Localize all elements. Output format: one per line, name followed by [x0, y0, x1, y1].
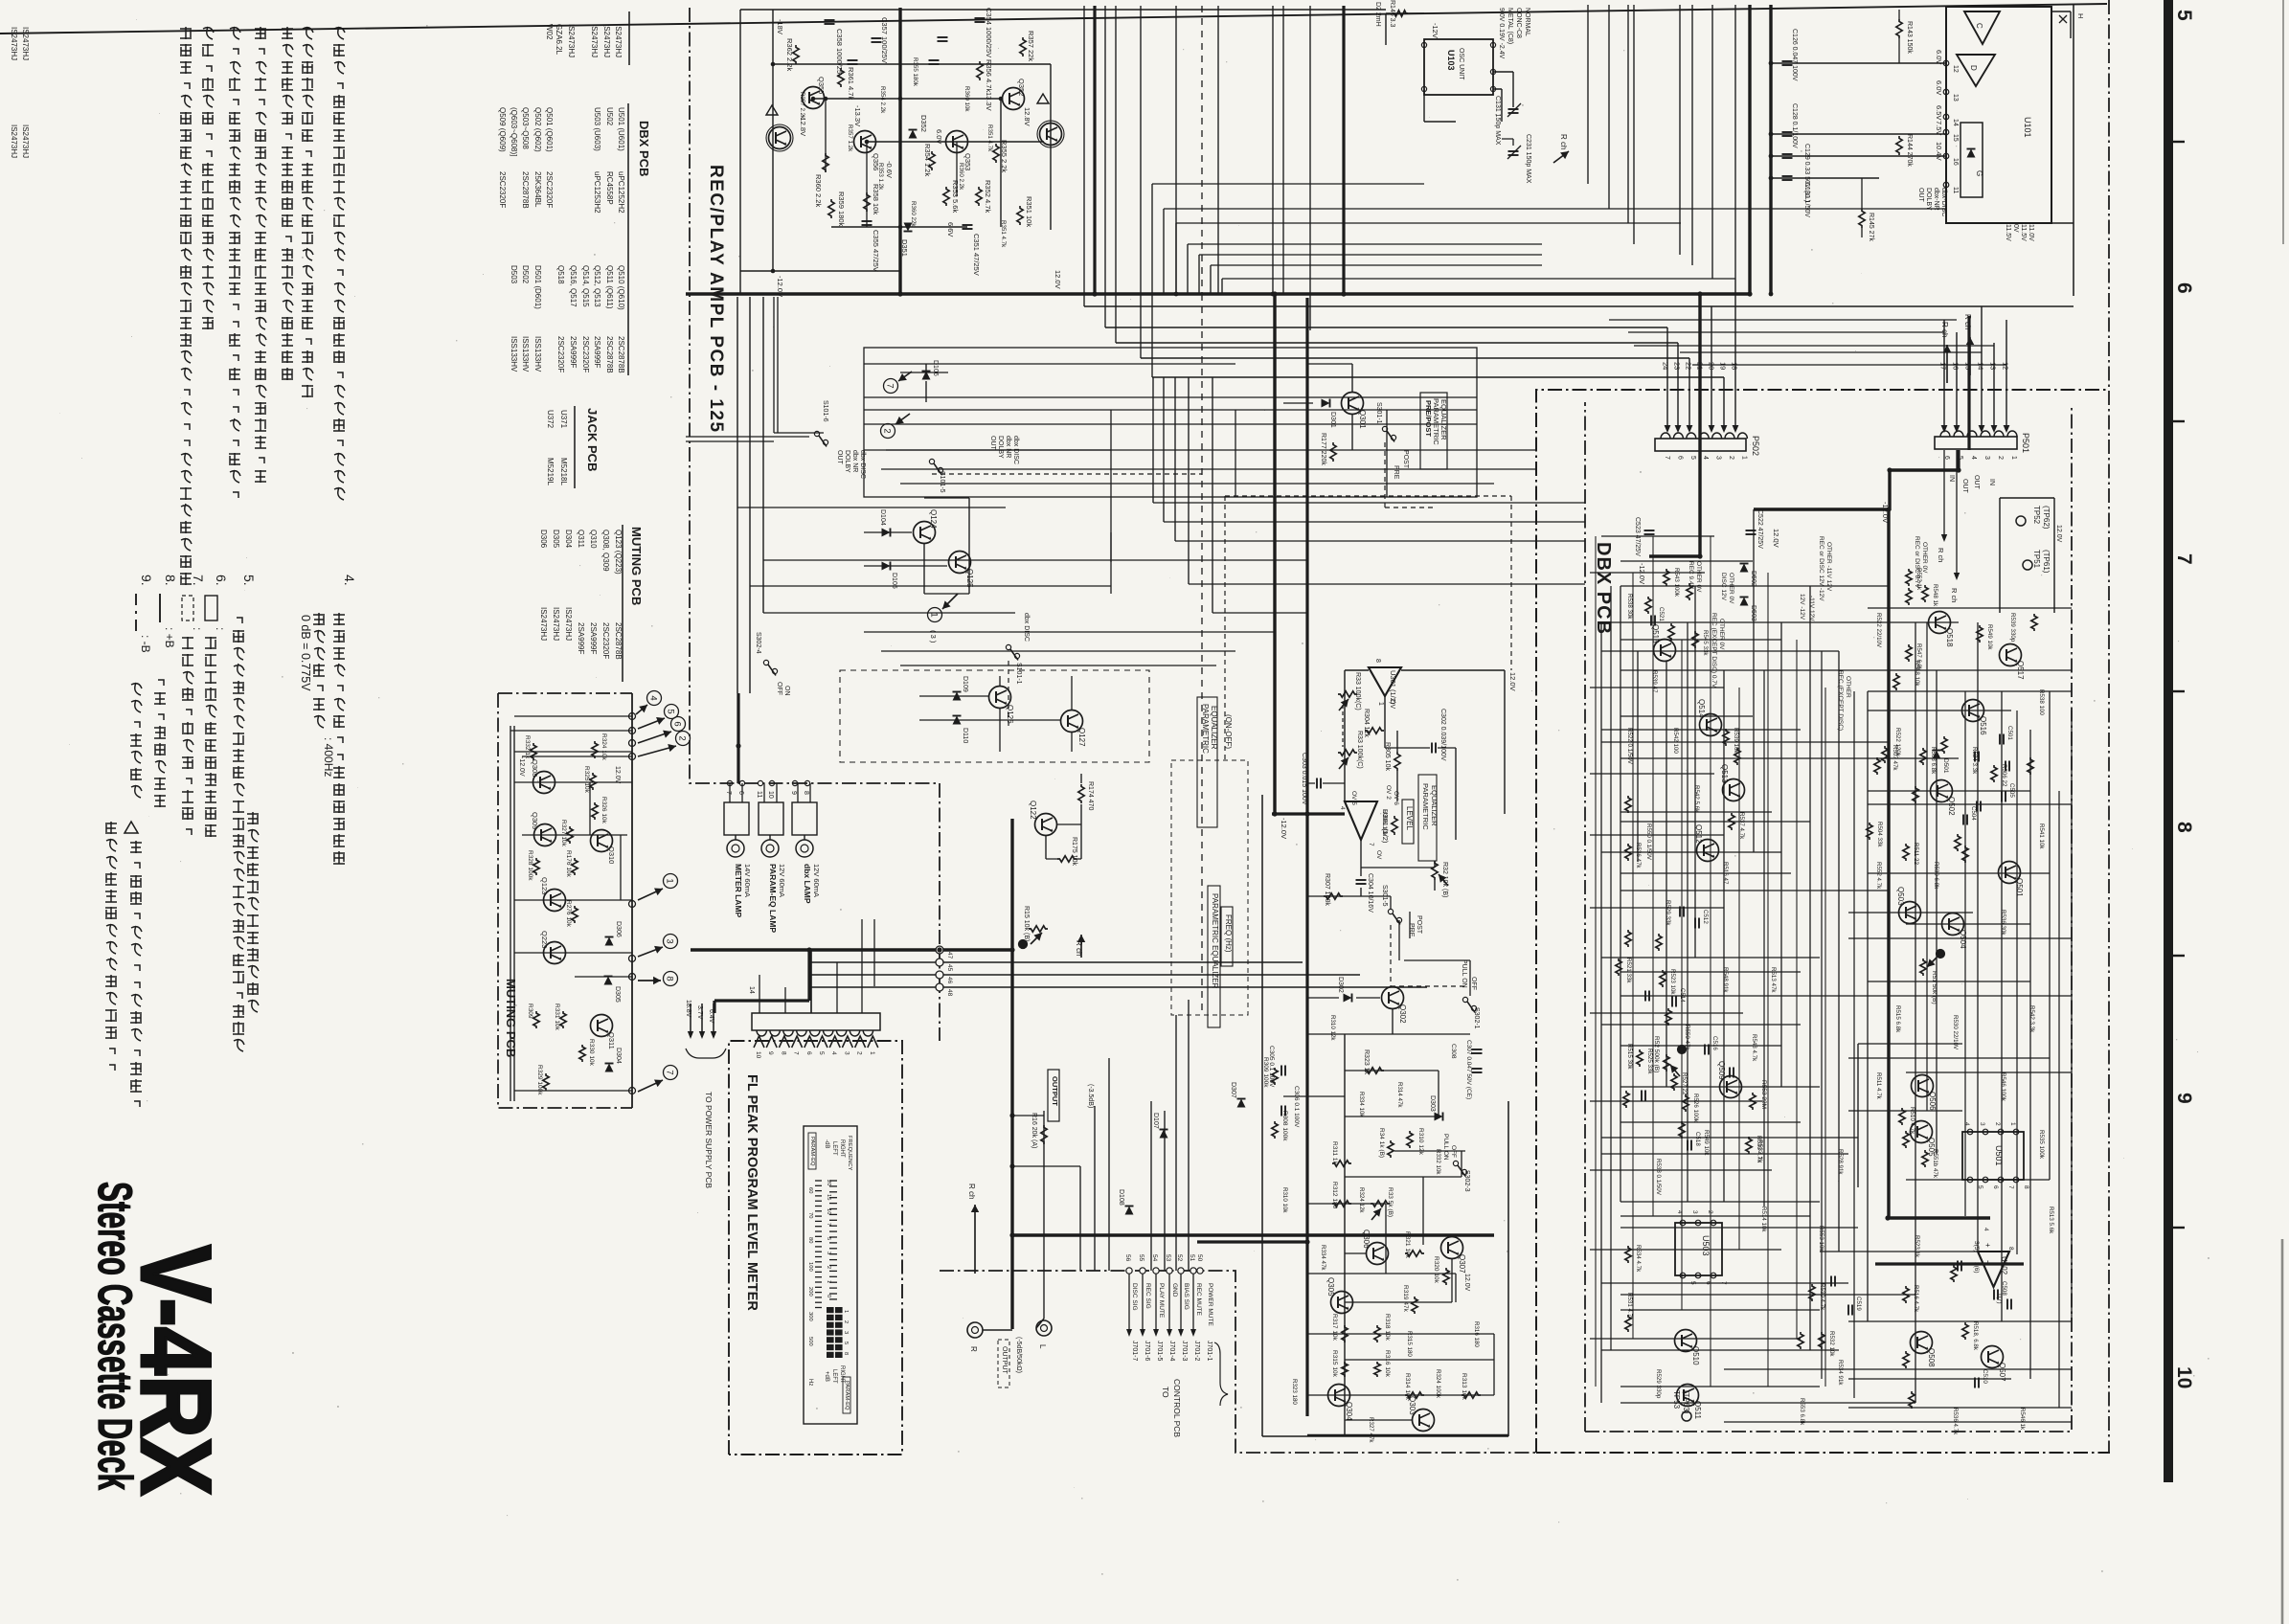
svg-text:Q509: Q509 — [1717, 1061, 1726, 1080]
diode D301 — [1322, 399, 1330, 408]
svg-text:LEFT: LEFT — [831, 1141, 837, 1156]
svg-text:DOLBY: DOLBY — [1925, 188, 1932, 211]
svg-text:R308 100k: R308 100k — [1281, 1111, 1288, 1141]
wire R52 wiper — [1670, 1065, 1680, 1076]
svg-text:C510: C510 — [1982, 1369, 1988, 1384]
wire thick lamp feed — [737, 693, 739, 783]
svg-text:Q503: Q503 — [1896, 887, 1905, 906]
IC U501 box — [1962, 1122, 2029, 1189]
wire staircase verticals into bundle — [1084, 294, 1152, 377]
label meter PARAM-EQ top — [808, 1133, 816, 1169]
svg-text:2SC2320F: 2SC2320F — [556, 336, 565, 372]
svg-text:11: 11 — [1952, 187, 1959, 193]
svg-text:0V: 0V — [2012, 224, 2019, 233]
transistor Q122 — [1035, 814, 1057, 836]
svg-text:Q311: Q311 — [577, 530, 585, 549]
svg-text:U502: U502 — [2000, 1256, 2008, 1275]
svg-text:R539 47: R539 47 — [1651, 670, 1658, 693]
svg-text:24: 24 — [1662, 362, 1670, 370]
wire S301-5 links — [1361, 896, 1410, 960]
resistor R324 — [592, 741, 598, 758]
svg-text:Q311: Q311 — [607, 1032, 616, 1049]
svg-text:R524 3.3k: R524 3.3k — [1971, 747, 1978, 775]
transistor Q354 — [766, 124, 793, 151]
svg-text:R536 30k: R536 30k — [2000, 910, 2006, 936]
svg-text:11.0V: 11.0V — [2028, 224, 2034, 241]
svg-text:R357 1.2k: R357 1.2k — [847, 124, 853, 152]
svg-text:3: 3 — [1983, 456, 1990, 460]
wire Q122 links — [1046, 774, 1081, 859]
svg-text:D502: D502 — [521, 265, 530, 284]
wire R33b wiper — [1339, 757, 1348, 769]
label meter PARAM-EQ bottom — [843, 1377, 850, 1413]
wire C129 rail — [1771, 155, 1946, 157]
svg-text:9.0V 0.19V -2.4V: 9.0V 0.19V -2.4V — [1498, 8, 1505, 59]
label note item 5 — [241, 575, 257, 586]
svg-text:4: 4 — [1970, 456, 1977, 460]
svg-text:D304: D304 — [564, 530, 573, 549]
right page edge smear lower — [2281, 1239, 2284, 1624]
svg-text:Q122: Q122 — [1029, 801, 1037, 820]
resistor R319 — [1412, 1297, 1417, 1314]
resistor R33 — [1338, 691, 1357, 697]
resistor R33c — [1371, 1201, 1390, 1207]
svg-text:R ch: R ch — [1950, 588, 1959, 602]
capacitor C523 — [1644, 530, 1655, 534]
IC U503 box — [1675, 1210, 1727, 1285]
svg-text:D306: D306 — [539, 530, 548, 549]
svg-text:Q518: Q518 — [1945, 628, 1954, 647]
svg-text:18: 18 — [1731, 362, 1739, 370]
capacitor C231 — [1508, 151, 1519, 155]
resistor R357 — [1020, 37, 1026, 56]
svg-text:Hz: Hz — [807, 1379, 813, 1386]
transistor Q304 — [1328, 1385, 1350, 1407]
resistor R521 — [1616, 959, 1621, 976]
wire dbx extra labels — [1626, 594, 2054, 1435]
svg-text:R304 12k: R304 12k — [1363, 709, 1370, 737]
svg-text:D501 (D601): D501 (D601) — [533, 265, 542, 309]
diode D107 — [1160, 1130, 1168, 1139]
wire meter display box — [804, 1126, 857, 1424]
label japanese note line d — [255, 27, 266, 483]
node U103 pins — [1421, 42, 1495, 91]
label dbx capacitor refs — [1658, 607, 2015, 1384]
resistor R516 — [1903, 1286, 1909, 1303]
svg-text:55: 55 — [1138, 1254, 1144, 1262]
wire Q301 feed — [1283, 364, 1352, 450]
svg-text:5: 5 — [1977, 1185, 1983, 1189]
wire arrow m7 — [638, 1079, 663, 1092]
svg-text:D305: D305 — [614, 986, 621, 1003]
svg-text:8: 8 — [665, 976, 675, 981]
svg-text:10: 10 — [826, 1208, 831, 1214]
wire lattice corner verticals — [1152, 184, 1222, 294]
svg-text:D305: D305 — [552, 530, 560, 549]
resistor R537 — [1729, 813, 1734, 830]
svg-text:R324 100k: R324 100k — [1435, 1369, 1441, 1399]
svg-text:R522 0.1/50V: R522 0.1/50V — [1626, 728, 1633, 765]
wire arrow m3 — [638, 946, 663, 957]
wire DBX PCB bottom chain — [1536, 1452, 2109, 1453]
svg-text:3: 3 — [843, 1331, 849, 1334]
wire main thick bus y307 — [686, 292, 1750, 296]
svg-text:7.5V: 7.5V — [1935, 121, 1943, 135]
svg-text:1: 1 — [2010, 456, 2017, 460]
svg-text:(TP63): (TP63) — [1682, 1390, 1690, 1414]
resistor R515 — [1951, 1265, 1957, 1282]
wire Q127 row — [919, 719, 1060, 721]
capacitor C307 — [1472, 1069, 1483, 1072]
svg-text:4: 4 — [1339, 806, 1346, 810]
svg-text:R354 1.2k: R354 1.2k — [923, 144, 932, 176]
wire rail -12V y283 — [740, 270, 900, 272]
transistor Q516 — [1962, 700, 1984, 722]
svg-text:D106: D106 — [932, 360, 939, 376]
svg-text:IS2473HJ: IS2473HJ — [10, 124, 18, 158]
svg-text:3: 3 — [843, 1051, 850, 1055]
svg-text:R362 2.2k: R362 2.2k — [785, 38, 794, 71]
svg-text:D301: D301 — [1329, 412, 1336, 428]
resistor R523 — [1660, 970, 1666, 987]
wire R33c wiper — [1371, 1208, 1381, 1220]
resistor R34 — [1388, 1140, 1394, 1158]
svg-text::: : — [214, 627, 227, 630]
switch S302-1 — [1462, 997, 1476, 1012]
resistor R545 — [1692, 631, 1698, 648]
svg-text:RC4558P: RC4558P — [605, 171, 614, 205]
transistor Q510 — [1675, 1330, 1697, 1352]
svg-text:46: 46 — [946, 977, 953, 984]
svg-text:RIGHT: RIGHT — [839, 1365, 845, 1384]
svg-text:J701-5: J701-5 — [1156, 1341, 1163, 1362]
resistor R506 — [1991, 765, 1997, 782]
svg-text:R529 330p: R529 330p — [1655, 1369, 1662, 1399]
svg-text:R276 10k: R276 10k — [565, 900, 572, 928]
wire thick dbx y532 — [1754, 507, 1890, 510]
svg-text:R546 1k: R546 1k — [2019, 1408, 2026, 1431]
svg-text:R328 100k: R328 100k — [527, 850, 533, 881]
svg-text:TP51: TP51 — [2032, 550, 2041, 569]
wire dashed vertical x1255 lower — [1201, 294, 1203, 1015]
svg-text:OUT: OUT — [1973, 475, 1980, 490]
svg-text:7: 7 — [1664, 456, 1670, 460]
transistor Q511 — [1677, 1385, 1699, 1407]
svg-text:RIGHT: RIGHT — [839, 1139, 845, 1158]
svg-text:2SC2320F: 2SC2320F — [581, 336, 590, 372]
svg-text:-: - — [1983, 1260, 1993, 1263]
capacitor C130 — [1782, 176, 1793, 180]
resistor R507 — [1882, 746, 1888, 763]
wire S101 dashed linkage — [932, 473, 1202, 475]
svg-text:ISS133HV: ISS133HV — [510, 336, 518, 372]
wire peq box bottom — [1262, 1435, 1508, 1437]
wire R145 stem — [1861, 178, 1863, 209]
svg-text:C518: C518 — [1694, 1132, 1701, 1146]
svg-text:ISS133HV: ISS133HV — [533, 336, 542, 372]
svg-text:H: H — [2076, 13, 2085, 18]
svg-text:7: 7 — [826, 1223, 831, 1226]
resistor R314 — [1405, 1392, 1424, 1398]
label japanese note line f — [202, 27, 214, 329]
svg-text:C308: C308 — [1450, 1044, 1457, 1059]
svg-text:-12.0V: -12.0V — [518, 756, 525, 777]
svg-text:Q512: Q512 — [1694, 824, 1703, 844]
svg-text:R548 91k: R548 91k — [1722, 967, 1729, 993]
wire output horizontals — [1011, 1111, 1080, 1166]
transistor Q506 — [1912, 1075, 1934, 1097]
svg-text:R521 33k: R521 33k — [1625, 958, 1632, 983]
svg-text:R331 10k: R331 10k — [554, 1004, 560, 1031]
svg-text:R526 100k: R526 100k — [1692, 1094, 1699, 1123]
svg-text:C355 47/25V: C355 47/25V — [872, 230, 880, 272]
wire thick y1499 — [1307, 1434, 1508, 1437]
svg-text:OV 6: OV 6 — [1393, 791, 1399, 805]
svg-text:dbx NR: dbx NR — [851, 450, 858, 472]
svg-text:Q502 (Q602): Q502 (Q602) — [533, 107, 542, 152]
wire thick dbx v1973 — [1888, 470, 1891, 510]
svg-text:: -B: : -B — [139, 635, 152, 653]
label P501 pin numbers 17-12 — [1939, 362, 2010, 370]
svg-text:2SC2878B: 2SC2878B — [617, 336, 625, 373]
svg-text:5: 5 — [826, 1237, 831, 1240]
resistor R528 — [1679, 1121, 1685, 1139]
svg-text:U372: U372 — [546, 410, 555, 429]
svg-text:R539 10k: R539 10k — [1733, 728, 1739, 754]
svg-text:45: 45 — [946, 964, 953, 972]
svg-text:U503 (U603): U503 (U603) — [593, 107, 601, 151]
label dbx transistor refs — [1651, 624, 2025, 1420]
transistor Q123 — [544, 890, 566, 912]
resistor R177 — [1330, 442, 1336, 462]
wire supply arrows — [688, 1004, 716, 1039]
resistor R527 — [1671, 1073, 1677, 1091]
capacitor C352 — [929, 60, 940, 64]
wire long horizontals to DBX — [737, 503, 1585, 613]
svg-text:R314 47k: R314 47k — [1396, 1082, 1403, 1108]
wire P502 feeds — [1667, 279, 1735, 431]
wire LEVEL box — [1402, 800, 1414, 844]
svg-text:OV: OV — [1375, 850, 1382, 860]
svg-text:METAL (C8): METAL (C8) — [1507, 8, 1513, 44]
svg-text:C131 150p MAX: C131 150p MAX — [1494, 96, 1501, 146]
wire tp box — [2000, 498, 2054, 613]
svg-text:PARAMETRIC: PARAMETRIC — [1201, 704, 1210, 754]
svg-text:R510 4.7k: R510 4.7k — [1909, 1107, 1915, 1135]
svg-text:7.: 7. — [191, 575, 206, 586]
resistor R52 — [1664, 1054, 1669, 1071]
svg-text:MUTING PCB: MUTING PCB — [629, 527, 644, 605]
svg-text:Q305: Q305 — [1326, 1277, 1335, 1297]
capacitor C354 — [975, 18, 986, 22]
diode D305 — [604, 977, 613, 985]
diode D108 — [1125, 1207, 1134, 1215]
wire dashed param box A — [1171, 760, 1248, 1015]
svg-text:TO: TO — [1161, 1387, 1170, 1398]
transistor Q351 — [1037, 121, 1064, 147]
label FL comb pin numbers — [755, 1051, 875, 1059]
svg-text:R ch: R ch — [1937, 548, 1945, 562]
wire muting top rails — [510, 716, 632, 756]
wire x2165 vertical — [2073, 5, 2074, 296]
svg-text:R33 100k(C): R33 100k(C) — [1354, 672, 1361, 710]
svg-text:C505: C505 — [2008, 783, 2015, 798]
svg-text:3: 3 — [1691, 1210, 1698, 1214]
IC U103 OSC UNIT box — [1424, 39, 1493, 95]
label U101 out voltages — [2005, 224, 2034, 241]
resistor R504 — [1867, 823, 1872, 840]
svg-text:Q123 (Q223): Q123 (Q223) — [614, 530, 623, 575]
transistor Q302 — [1382, 987, 1404, 1009]
resistor R536 — [1625, 844, 1631, 861]
svg-text:S101-6: S101-6 — [822, 400, 828, 422]
svg-text:IS2473HJ: IS2473HJ — [552, 607, 560, 641]
svg-text:6: 6 — [1992, 1185, 1999, 1189]
svg-text:OTHER -11V 12V: OTHER -11V 12V — [1825, 542, 1832, 592]
resistor R539 — [1723, 729, 1729, 746]
test point TP51 — [2023, 550, 2051, 574]
resistor R306 — [1392, 816, 1397, 835]
svg-text:OUTPUT: OUTPUT — [1001, 1346, 1008, 1375]
wire U301 upper links — [1345, 670, 1505, 814]
svg-text:+: + — [1983, 1243, 1992, 1248]
wire muting rails — [510, 693, 632, 1108]
svg-text:U502: U502 — [605, 107, 614, 126]
svg-text:R552 4.7k: R552 4.7k — [1875, 862, 1882, 890]
node thick bus junction dots — [736, 291, 1960, 1244]
svg-text:C504: C504 — [1970, 806, 1977, 821]
resistor R552 — [1906, 569, 1912, 586]
svg-text:R310 10k: R310 10k — [1281, 1187, 1288, 1213]
switch S101-5 — [929, 459, 942, 474]
svg-text:2: 2 — [882, 428, 893, 433]
svg-text:Q223: Q223 — [540, 931, 549, 948]
wire C231 feed — [1502, 139, 1513, 146]
meter filled segment blocks — [827, 1307, 843, 1358]
wire S301 dashed gang2 — [1391, 925, 1465, 986]
svg-text:V-4RX: V-4RX — [120, 1245, 231, 1496]
svg-text:EQUALIZER: EQUALIZER — [1430, 785, 1439, 826]
node warning triangle Q354 — [766, 105, 778, 115]
wire S101-1 linkage dash — [1008, 661, 1009, 728]
svg-text:R542 3.3k: R542 3.3k — [2028, 1005, 2035, 1033]
svg-text:Q511: Q511 — [1693, 1401, 1702, 1420]
svg-text:R175 10k: R175 10k — [1071, 837, 1077, 866]
svg-text:7: 7 — [2007, 1185, 2014, 1189]
svg-text:5.: 5. — [241, 575, 257, 586]
capacitor C514 — [1672, 997, 1676, 1007]
svg-text:1(7): 1(7) — [1996, 1293, 2003, 1304]
resistor R361 — [838, 68, 844, 87]
label DBX table IS rows top — [545, 24, 623, 57]
wire dbx mesh verticals — [1601, 509, 2072, 1403]
wire C128 rail — [1771, 133, 1946, 135]
svg-text:S301-5: S301-5 — [1381, 885, 1388, 907]
svg-text:R546 100k: R546 100k — [2000, 1072, 2006, 1102]
svg-text:J701-1: J701-1 — [1206, 1341, 1212, 1362]
diode D501 — [1933, 751, 1941, 759]
wire U101 H branch — [2051, 11, 2071, 38]
svg-text:Q518: Q518 — [556, 265, 565, 284]
svg-text:12.8V: 12.8V — [1023, 107, 1031, 126]
svg-text:15: 15 — [1964, 362, 1973, 370]
resistor R517 — [1903, 1351, 1909, 1368]
svg-text:C306 0.1 100V: C306 0.1 100V — [1293, 1086, 1300, 1128]
svg-text:(TP61): (TP61) — [2042, 550, 2051, 574]
svg-text:R548 10k: R548 10k — [1914, 661, 1920, 687]
wire R ch arrow out — [971, 1205, 979, 1274]
svg-text:6: 6 — [2173, 282, 2195, 294]
svg-text:20: 20 — [1708, 362, 1716, 370]
svg-text:OTHER 0V: OTHER 0V — [1695, 561, 1702, 593]
svg-text:D303: D303 — [1429, 1095, 1436, 1112]
svg-text:6.0V: 6.0V — [935, 129, 943, 144]
capacitor C518 — [1688, 1140, 1691, 1151]
svg-text:D107: D107 — [1152, 1113, 1159, 1129]
svg-text:R332 1k: R332 1k — [524, 735, 531, 759]
svg-text:R532 10k: R532 10k — [1828, 1331, 1835, 1357]
transistor Q501 — [1999, 862, 2021, 884]
wire dashed param box B — [1225, 496, 1511, 760]
svg-text:R174 470: R174 470 — [1087, 781, 1094, 810]
capacitor C511 — [1680, 907, 1684, 917]
svg-text:6.0V: 6.0V — [1935, 80, 1943, 95]
wire thick dbx y581 — [1649, 554, 1700, 557]
svg-text:R504 33k: R504 33k — [1876, 822, 1883, 847]
wire C303 row — [1307, 782, 1345, 784]
wire J701 arrows down — [1126, 1274, 1196, 1337]
svg-text:R ch: R ch — [1963, 314, 1972, 329]
svg-text:11: 11 — [756, 791, 762, 798]
svg-text:OFF: OFF — [1470, 977, 1477, 990]
svg-text:D304: D304 — [615, 1048, 622, 1064]
transistor Q124 — [914, 522, 936, 544]
svg-text:OV 5: OV 5 — [1350, 791, 1357, 805]
svg-text:R549 10k: R549 10k — [1986, 624, 1993, 650]
wire Q126 row — [919, 695, 988, 697]
wire vertical x807 — [772, 10, 774, 271]
svg-text:R543 4.7k: R543 4.7k — [1751, 1034, 1757, 1062]
capacitor C131 — [1508, 109, 1519, 113]
svg-text:R327 47k: R327 47k — [1368, 1417, 1374, 1443]
wire dbx left-half extra mesh — [1590, 536, 1825, 1387]
svg-text:23: 23 — [1673, 362, 1682, 370]
resistor R529 — [1623, 1091, 1629, 1108]
svg-text:PRE: PRE — [1393, 465, 1399, 480]
svg-text:R360 22k: R360 22k — [910, 201, 917, 227]
resistor R355 — [993, 144, 999, 163]
svg-text:R144 270k: R144 270k — [1906, 134, 1913, 167]
svg-text:6: 6 — [672, 721, 683, 726]
svg-text:dbx NR: dbx NR — [1005, 436, 1011, 458]
svg-text:R548 1k: R548 1k — [1932, 584, 1938, 607]
svg-text:3.7V: 3.7V — [696, 1005, 703, 1020]
label note item 8 — [160, 575, 178, 648]
svg-text:Q126: Q126 — [1006, 705, 1014, 724]
svg-text:2: 2 — [856, 1051, 863, 1055]
transistor Q311 — [591, 1015, 613, 1037]
svg-text:Q511 (Q611): Q511 (Q611) — [605, 265, 614, 309]
resistor R359 — [828, 199, 834, 218]
resistor R175 — [1057, 856, 1077, 862]
wire arrow7 — [898, 372, 912, 381]
svg-text:12V -12V: 12V -12V — [1799, 594, 1805, 620]
wire peq rows — [1283, 1071, 1494, 1420]
svg-text:Q310: Q310 — [589, 530, 598, 549]
svg-text:BIAS SIG: BIAS SIG — [1183, 1283, 1190, 1310]
resistor R533 — [1746, 1137, 1752, 1154]
svg-text:(-5dB/50kΩ): (-5dB/50kΩ) — [1015, 1337, 1022, 1373]
